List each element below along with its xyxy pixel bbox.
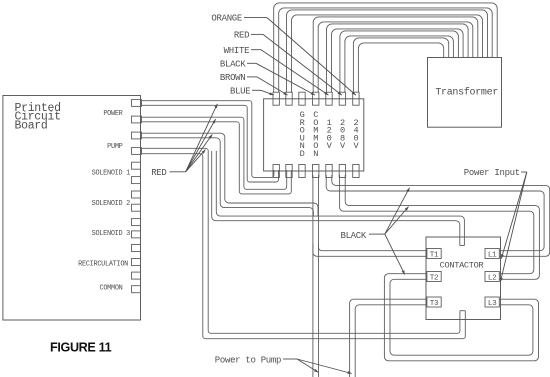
- wire W5 PCB-PUMP-2 branch to coil top: [212, 151, 465, 246]
- svg-text:BLACK: BLACK: [220, 60, 246, 70]
- svg-text:L2: L2: [488, 275, 497, 283]
- svg-text:RED: RED: [151, 168, 166, 178]
- wire B2 PCB-POWER-2 to strip: [142, 117, 292, 194]
- contactor box: [426, 237, 501, 320]
- transformer box: [428, 58, 502, 128]
- svg-text:Board: Board: [15, 120, 48, 133]
- wire B3 PCB-PUMP-1 to COMMON junction: [142, 133, 319, 216]
- svg-text:V: V: [340, 141, 346, 151]
- svg-text:Power Input: Power Input: [464, 168, 520, 178]
- PCB wire terminal blocks: [132, 100, 142, 155]
- wire C1 strip-120V to L1: [326, 175, 550, 256]
- svg-text:Power to Pump: Power to Pump: [215, 356, 281, 366]
- svg-text:N: N: [313, 149, 318, 159]
- svg-text:V: V: [353, 141, 359, 151]
- wire A4 strip-120V-to-transformer: [327, 24, 469, 92]
- strip column label 120V: [327, 118, 333, 151]
- svg-text:L1: L1: [488, 252, 497, 260]
- svg-text:BLACK: BLACK: [340, 231, 366, 241]
- strip column label 208V: [340, 118, 346, 151]
- svg-text:RED: RED: [234, 30, 249, 40]
- wire B4 PCB-PUMP-2 to contactor coil: [142, 148, 466, 338]
- contactor terminal L2: [485, 272, 499, 282]
- svg-text:L3: L3: [488, 300, 497, 308]
- wire C5 L3 loop to T2: [384, 274, 538, 361]
- contactor terminal T3: [427, 297, 441, 307]
- wire A2 strip-T2-to-transformer: [287, 10, 488, 92]
- wire A1 strip-T1-to-transformer: [274, 3, 498, 92]
- strip column label GROUND: [300, 110, 305, 159]
- svg-text:CONTACTOR: CONTACTOR: [440, 260, 484, 270]
- contactor terminal T1: [427, 249, 441, 259]
- PCB title text: [15, 102, 61, 133]
- wire C3 strip-COMMON down to pump: [313, 175, 319, 377]
- strip column label COMMON: [313, 110, 318, 159]
- wire A3 strip-COMMON-to-transformer: [313, 17, 478, 92]
- svg-text:T3: T3: [430, 300, 439, 308]
- PCB stub terminals: [132, 162, 141, 293]
- svg-text:WHITE: WHITE: [224, 46, 250, 56]
- svg-text:SOLENOID 2: SOLENOID 2: [92, 200, 131, 208]
- contactor terminal L1: [485, 249, 499, 259]
- wire B1 PCB-POWER-1 to strip: [142, 101, 279, 182]
- svg-text:RECIRCULATION: RECIRCULATION: [78, 261, 128, 269]
- svg-text:ORANGE: ORANGE: [211, 14, 242, 24]
- svg-text:FIGURE 11: FIGURE 11: [50, 340, 112, 354]
- svg-text:COMMON: COMMON: [99, 284, 122, 292]
- strip column label 240V: [353, 118, 359, 151]
- printed circuit board box: [3, 96, 141, 321]
- svg-text:SOLENOID 1: SOLENOID 1: [92, 170, 131, 178]
- svg-text:BROWN: BROWN: [220, 73, 246, 83]
- svg-text:PUMP: PUMP: [107, 143, 123, 151]
- contactor terminal T2: [427, 272, 441, 282]
- wire C3a COMMON branch to T1: [313, 244, 427, 256]
- wire A6 strip-240V-to-transformer: [353, 38, 448, 92]
- svg-text:T1: T1: [430, 252, 439, 260]
- svg-text:BLUE: BLUE: [230, 87, 250, 97]
- PCB pin labels: [78, 110, 130, 292]
- wire C4 contactor-T3 down to pump: [350, 299, 427, 377]
- terminal strip terminals top and bottom: [273, 92, 359, 177]
- svg-text:POWER: POWER: [103, 110, 122, 118]
- svg-text:D: D: [300, 149, 305, 159]
- wire A5 strip-208V-to-transformer: [340, 31, 459, 92]
- contactor terminal L3: [485, 297, 499, 307]
- svg-text:SOLENOID 3: SOLENOID 3: [92, 230, 131, 238]
- svg-text:V: V: [327, 141, 333, 151]
- svg-text:T2: T2: [430, 275, 439, 283]
- svg-text:Transformer: Transformer: [435, 87, 498, 99]
- wire C2 strip-208V to L2: [340, 175, 540, 279]
- terminal strip box: [264, 99, 364, 171]
